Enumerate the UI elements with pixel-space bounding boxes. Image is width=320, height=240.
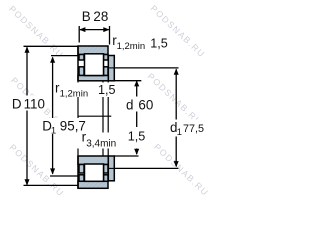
svg-text:d: d (126, 98, 133, 113)
svg-text:1: 1 (51, 126, 56, 137)
svg-text:77,5: 77,5 (183, 123, 204, 135)
svg-text:1,5: 1,5 (150, 36, 168, 50)
svg-text:1,2min: 1,2min (60, 88, 89, 99)
svg-text:1,5: 1,5 (98, 83, 116, 97)
svg-text:1,2min: 1,2min (117, 41, 146, 52)
svg-text:60: 60 (138, 98, 153, 113)
svg-text:3,4min: 3,4min (86, 139, 116, 150)
svg-text:D: D (12, 97, 22, 112)
svg-text:28: 28 (93, 9, 108, 24)
svg-text:1,5: 1,5 (128, 129, 146, 143)
svg-text:110: 110 (24, 97, 45, 112)
svg-text:B: B (82, 9, 91, 24)
svg-text:1: 1 (177, 127, 182, 138)
